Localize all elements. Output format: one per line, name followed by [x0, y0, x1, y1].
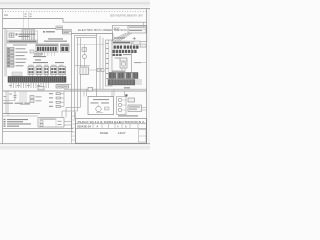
- bus dashed wire 1 labels: [25, 13, 27, 17]
- small box on right wire: [88, 87, 93, 91]
- wire from bus to cluster: [112, 34, 114, 42]
- wire stub right: [141, 62, 146, 64]
- wire upper-left horizontal: [3, 19, 147, 23]
- center vertical bus wire 2: [74, 36, 76, 119]
- right vertical bus: [131, 45, 133, 73]
- fuse box F2: [61, 44, 70, 52]
- wire label right: [124, 87, 130, 88]
- right small blocks row3: [113, 54, 122, 56]
- right cluster wire to border: [138, 46, 146, 48]
- svg-text:PHCO 94.14 & 94/94 ELECTRONICS: PHCO 94.14 & 94/94 ELECTRONICS A: [78, 120, 145, 124]
- wire into SOC box: [143, 22, 145, 26]
- small box right 1: [128, 98, 135, 102]
- wire drops into control box: [83, 91, 85, 97]
- short wire row: [3, 100, 15, 102]
- bottom long wire 2: [3, 131, 73, 133]
- header band strip: [8, 40, 38, 43]
- label rows near connector K1: [16, 33, 36, 37]
- wire bus b: [76, 37, 96, 39]
- small label box on wire: [56, 26, 63, 30]
- small box right of strip: [141, 44, 147, 47]
- right cluster connector cells row2: [113, 50, 137, 53]
- ground rows: [49, 91, 64, 107]
- relay column stack: [7, 48, 14, 68]
- pin ladder box: [117, 97, 127, 115]
- right dense block row1: [109, 73, 138, 79]
- right dense block row2: [108, 80, 135, 86]
- svg-text:05043E-34: 05043E-34: [77, 124, 92, 128]
- label left of clock spring: [115, 58, 121, 59]
- right cluster labels above: [112, 71, 125, 72]
- long horizontal wire row lower: [3, 90, 147, 92]
- bus dashed wire 1: [23, 13, 25, 29]
- SOC box: [112, 26, 147, 42]
- legend text band mid-left: [4, 103, 31, 104]
- wire mid bus: [63, 30, 114, 34]
- text row under header band: [13, 45, 27, 46]
- center text rows: [33, 56, 64, 63]
- wire left content top: [3, 28, 56, 30]
- terminal blocks above strip: [28, 67, 66, 75]
- wire bundle hatch box: [22, 30, 35, 43]
- fuse box F1: [36, 44, 58, 52]
- bottom long wire 1: [3, 128, 73, 130]
- connector label box: [63, 30, 72, 35]
- wire fan diagonals: [113, 33, 132, 42]
- small component b: [101, 68, 104, 71]
- connector box mid: [80, 67, 89, 75]
- small box right 2 with text: [128, 105, 142, 112]
- revision column: [72, 112, 76, 143]
- tiny pin labels above blocks: [29, 64, 64, 67]
- small boxes right of strip: [56, 85, 62, 89]
- heading text above fuse box: [44, 38, 67, 41]
- wires terminal blocks to strip: [30, 75, 63, 77]
- harness label box above strip: [12, 72, 22, 76]
- right cluster top text: [114, 37, 125, 38]
- svg-text:SEAT HEATING MEMORY UNIT: SEAT HEATING MEMORY UNIT: [110, 13, 143, 17]
- staircase wire to lower box b: [62, 111, 78, 118]
- center vertical bus wire 1: [71, 34, 73, 129]
- bus dashed wire 2 labels: [30, 13, 32, 17]
- left outer box: [7, 31, 38, 43]
- main terminal strip X1: [8, 77, 66, 83]
- row3 label: [123, 54, 131, 55]
- svg-text:ELECTRIC BOX UNDER THE SOC: ELECTRIC BOX UNDER THE SOC: [78, 28, 128, 32]
- wire verticals below strip left: [6, 91, 8, 116]
- wires from box to border: [142, 107, 147, 109]
- svg-text:PAGE: PAGE: [100, 131, 108, 135]
- long horizontal wire row upper: [64, 88, 146, 90]
- wire across right mid: [77, 44, 105, 46]
- bus dashed wire 2: [28, 13, 30, 29]
- right cluster small box: [133, 41, 140, 45]
- small component a: [97, 68, 100, 71]
- right hatch marks: [137, 79, 141, 85]
- terminal block mid dividers: [31, 68, 62, 74]
- wire number labels left: [4, 85, 41, 97]
- component cross symbol: [13, 91, 16, 101]
- svg-text:14/27: 14/27: [118, 131, 126, 135]
- cross mark component: [133, 37, 137, 40]
- motor M1 circle: [83, 45, 87, 67]
- clock spring component: [120, 58, 127, 73]
- long wires to bottom-left: [3, 113, 40, 115]
- wire drops right of cluster: [111, 91, 113, 97]
- title block: [76, 119, 147, 144]
- wires below fuse box F1: [38, 52, 55, 56]
- text above title block: [118, 115, 138, 116]
- wire label row: [43, 31, 55, 33]
- staircase wire to lower box a: [66, 107, 81, 117]
- legend rows: [4, 119, 32, 127]
- wire across mid: [75, 65, 91, 67]
- right cluster connector cells row1: [114, 46, 139, 49]
- connector grid labels: [36, 96, 42, 101]
- strip link wire: [66, 84, 72, 86]
- wire to small components: [89, 69, 105, 71]
- relay column labels: [16, 48, 28, 66]
- right area vertical wires: [96, 34, 98, 97]
- small connector grid: [30, 96, 34, 103]
- label rows under fuse box: [34, 53, 43, 56]
- relay K5 small box: [82, 48, 87, 52]
- bundle connector wire: [20, 104, 30, 106]
- wire left verticals: [4, 29, 6, 77]
- center vertical bus wire 4: [80, 38, 82, 108]
- control unit box U1: [88, 97, 114, 115]
- wires dropping from strip: [11, 82, 49, 88]
- center vertical bus wire 3: [77, 38, 79, 111]
- small label right of clock spring: [134, 62, 141, 63]
- diode box on wire: [38, 86, 44, 90]
- connector K1 small box: [9, 33, 14, 37]
- lower relay box: [38, 118, 72, 128]
- small component box mid-left: [30, 50, 37, 53]
- right cluster label strip: [112, 41, 132, 44]
- terminal block cells: [29, 68, 65, 73]
- wire bus a: [74, 35, 96, 37]
- relay column dark cells: [8, 48, 10, 67]
- tall connector column: [106, 40, 113, 86]
- junction label right: [125, 94, 127, 96]
- svg-text:SOC: SOC: [114, 27, 120, 31]
